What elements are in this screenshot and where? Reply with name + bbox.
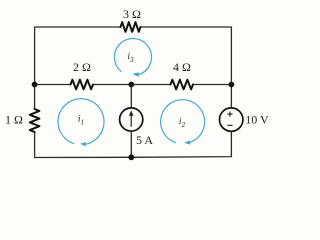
wire left bottom (35, 132, 132, 158)
resistor 2 Ohm (71, 80, 94, 90)
wire left below node to resistor (34, 85, 36, 110)
svg-text:1 Ω: 1 Ω (5, 113, 23, 127)
wire top-right segment (141, 27, 232, 85)
current source 5 A (120, 108, 143, 131)
mesh current i2 loop (161, 100, 205, 143)
wire middle-right (193, 84, 231, 86)
current source arrow (130, 114, 132, 127)
resistor 1 Ohm (30, 109, 40, 132)
node 5A bottom (128, 154, 134, 160)
svg-text:3 Ω: 3 Ω (123, 7, 141, 21)
node left middle (32, 82, 38, 88)
svg-text:5 A: 5 A (136, 133, 153, 147)
svg-text:2 Ω: 2 Ω (73, 60, 91, 74)
wire bottom-right (131, 131, 231, 157)
wire 10V top lead (230, 85, 232, 108)
minus sign (227, 124, 232, 126)
wire top-left segment (35, 27, 121, 85)
mesh current i1 loop (58, 99, 104, 144)
voltage source 10 V (220, 108, 243, 131)
resistor 4 Ohm (171, 80, 194, 90)
plus sign (227, 112, 232, 117)
mesh current i3 loop (114, 39, 151, 75)
wire 5A top lead (130, 85, 132, 109)
wire middle-left (35, 84, 71, 86)
wire middle-center (93, 84, 171, 86)
wire 5A bottom lead (130, 131, 132, 157)
node 10V top (229, 82, 235, 88)
svg-text:4 Ω: 4 Ω (173, 60, 191, 74)
node 5A top (128, 82, 134, 88)
svg-text:10 V: 10 V (245, 112, 269, 126)
resistor 3 Ohm (121, 22, 141, 32)
